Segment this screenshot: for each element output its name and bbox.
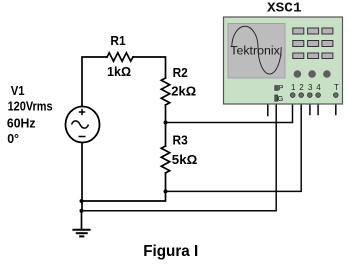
svg-text:3: 3 <box>308 83 313 92</box>
svg-text:Tektronix: Tektronix <box>230 44 280 58</box>
svg-text:2kΩ: 2kΩ <box>171 84 196 99</box>
svg-text:R2: R2 <box>173 65 188 80</box>
svg-text:T: T <box>334 83 339 92</box>
svg-text:R3: R3 <box>173 133 188 148</box>
svg-text:XSC1: XSC1 <box>267 1 302 17</box>
svg-text:60Hz: 60Hz <box>7 115 36 130</box>
svg-text:1kΩ: 1kΩ <box>107 64 131 79</box>
svg-text:R1: R1 <box>110 33 125 48</box>
svg-text:1: 1 <box>291 83 296 92</box>
svg-text:G: G <box>278 94 284 103</box>
svg-text:P: P <box>279 85 284 92</box>
svg-text:120Vrms: 120Vrms <box>8 99 53 114</box>
svg-text:4: 4 <box>316 83 321 92</box>
svg-text:5kΩ: 5kΩ <box>172 152 198 167</box>
svg-text:2: 2 <box>299 83 304 92</box>
svg-text:V1: V1 <box>11 83 25 98</box>
svg-text:Figura I: Figura I <box>143 243 198 260</box>
svg-text:0°: 0° <box>7 131 19 146</box>
